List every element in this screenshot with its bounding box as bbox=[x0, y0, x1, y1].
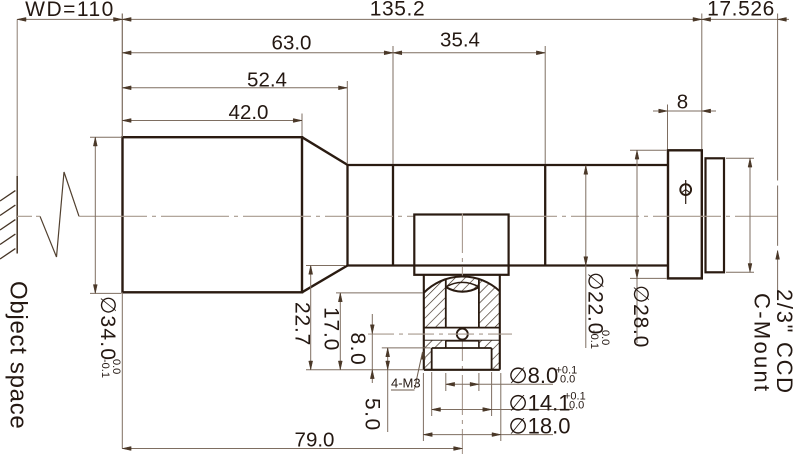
svg-text:17.0: 17.0 bbox=[320, 307, 343, 351]
CCD leader bbox=[776, 251, 780, 260]
bottom diameter texts bbox=[391, 363, 586, 439]
135.2 bbox=[122, 17, 131, 21]
17.526 bbox=[702, 17, 711, 21]
svg-text:0.0: 0.0 bbox=[560, 374, 575, 386]
lens front cylinder bbox=[123, 137, 303, 292]
svg-text:-0.1: -0.1 bbox=[99, 359, 111, 378]
svg-text:4-M3: 4-M3 bbox=[391, 376, 421, 391]
C-mount ring bbox=[706, 158, 725, 272]
M3 screw hole bbox=[457, 329, 468, 340]
bracket clamp block (drawn before tube lines) bbox=[414, 215, 508, 275]
svg-text:WD=110: WD=110 bbox=[25, 0, 115, 21]
screw hole centerline bbox=[368, 333, 512, 335]
svg-text:5.0: 5.0 bbox=[361, 398, 384, 432]
63.0 bbox=[122, 51, 131, 55]
8.0 (outside) bbox=[370, 325, 374, 334]
dim lines top bbox=[17, 18, 122, 20]
svg-text:135.2: 135.2 bbox=[370, 0, 426, 21]
svg-text:63.0: 63.0 bbox=[272, 32, 312, 55]
svg-text:∅34.0: ∅34.0 bbox=[96, 296, 119, 361]
svg-text:52.4: 52.4 bbox=[247, 69, 287, 92]
52.4 bbox=[122, 86, 131, 90]
79 bottom bbox=[121, 14, 123, 138]
svg-text:2/3" CCD: 2/3" CCD bbox=[772, 289, 797, 395]
79.0 bbox=[122, 447, 131, 451]
bracket vertical centerline bbox=[461, 213, 463, 454]
main tube bbox=[348, 164, 669, 267]
bore seen through slot (lens shape) bbox=[446, 282, 479, 287]
slot walls bbox=[445, 280, 447, 328]
svg-text:Object space: Object space bbox=[5, 281, 32, 429]
svg-text:C-Mount: C-Mount bbox=[750, 293, 775, 393]
4-M3 leader bbox=[415, 352, 423, 389]
svg-text:-0.1: -0.1 bbox=[588, 330, 600, 349]
WD=110 bbox=[17, 17, 26, 21]
bottom dias bbox=[445, 373, 447, 391]
C mount bbox=[749, 158, 751, 272]
dia8 bbox=[446, 382, 455, 386]
set screw symbol on flange bbox=[680, 180, 691, 204]
svg-text:8: 8 bbox=[677, 91, 688, 114]
dia22 bbox=[584, 166, 588, 175]
svg-text:42.0: 42.0 bbox=[229, 101, 269, 124]
svg-text:∅14.1: ∅14.1 bbox=[509, 391, 571, 416]
8 flange (outside) bbox=[659, 109, 668, 113]
dia14.1 bbox=[432, 408, 441, 412]
dia34 bbox=[93, 137, 97, 146]
bracket body hatched section bbox=[368, 275, 512, 370]
4-M3 leader tip bbox=[421, 351, 425, 360]
17.0 bbox=[338, 293, 342, 302]
svg-text:∅28.0: ∅28.0 bbox=[629, 285, 652, 348]
cone taper bottom bbox=[302, 266, 348, 293]
svg-text:8.0: 8.0 bbox=[346, 333, 369, 367]
5.0 bbox=[386, 348, 390, 357]
35.4 bbox=[393, 51, 402, 55]
dia28 bbox=[635, 150, 639, 159]
tube bottom edge visible across block bbox=[414, 264, 510, 266]
dia18 bbox=[423, 433, 432, 437]
clamp bore arc bbox=[424, 277, 500, 293]
mount flange bbox=[668, 150, 702, 278]
22.7 bbox=[309, 266, 313, 275]
svg-text:∅18.0: ∅18.0 bbox=[509, 414, 571, 439]
cone taper top bbox=[302, 137, 348, 165]
C mount bbox=[748, 158, 752, 167]
42.0 bbox=[122, 119, 131, 123]
svg-text:17.526: 17.526 bbox=[707, 0, 775, 21]
optical axis centerline bbox=[17, 215, 778, 217]
svg-text:∅22.0: ∅22.0 bbox=[584, 272, 607, 335]
body outline bbox=[424, 275, 500, 370]
object plane wall bbox=[16, 19, 18, 253]
2/3 CCD leader bbox=[777, 251, 779, 291]
svg-text:0.0: 0.0 bbox=[569, 400, 584, 412]
svg-text:35.4: 35.4 bbox=[440, 29, 480, 52]
axis break zigzag bbox=[40, 172, 79, 257]
dia 22 bbox=[585, 166, 587, 349]
extension lines top bbox=[121, 14, 123, 138]
wall hatching bbox=[0, 191, 15, 259]
svg-text:79.0: 79.0 bbox=[295, 429, 335, 452]
svg-text:∅8.0: ∅8.0 bbox=[509, 363, 559, 388]
svg-text:22.7: 22.7 bbox=[291, 302, 314, 346]
bracket side dims bbox=[310, 266, 312, 370]
dia 28 bbox=[636, 150, 638, 343]
foot columns bbox=[424, 348, 432, 370]
left dia 34 bbox=[94, 137, 96, 293]
foot plate bbox=[432, 348, 492, 370]
screw hole band bbox=[424, 327, 500, 329]
